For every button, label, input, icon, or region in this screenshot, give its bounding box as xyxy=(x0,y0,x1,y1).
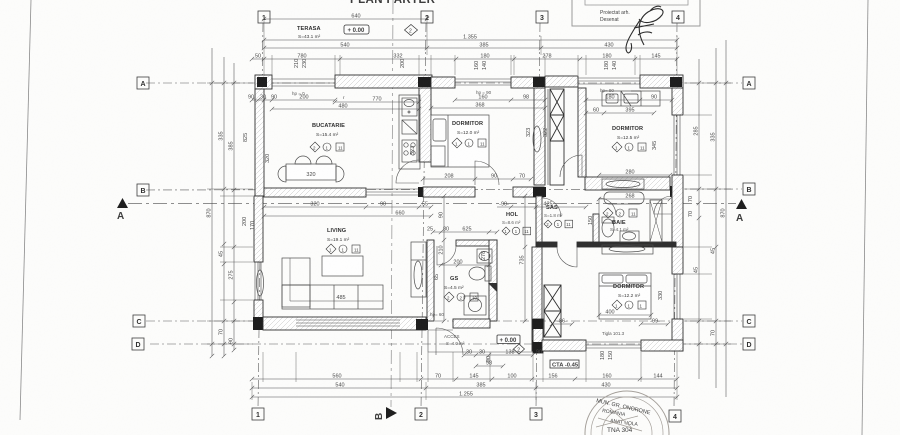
axis column 2 xyxy=(421,23,426,408)
paper fold right edge xyxy=(862,0,868,435)
axis row C xyxy=(146,320,742,322)
dim chain dorm1 bottom xyxy=(421,177,533,181)
door arc entry xyxy=(436,328,463,355)
dim chain dorm1 width xyxy=(429,106,547,110)
section line A-A xyxy=(128,203,736,205)
dim chain dorm2 wardrobe xyxy=(584,111,656,115)
paper fold left edge xyxy=(20,0,31,420)
dim chain left inner xyxy=(232,63,236,350)
dim chain entry small xyxy=(462,353,535,357)
dim chain left total xyxy=(210,48,214,356)
axis column 1 xyxy=(258,23,263,408)
grid bubble 4 bottom xyxy=(669,410,681,422)
grid bubble 4 top xyxy=(672,11,684,23)
section marker A right xyxy=(736,199,747,224)
symbols dormitor1 xyxy=(452,138,486,148)
axis column 3 xyxy=(536,23,540,408)
wall kitchen top xyxy=(335,75,432,88)
wall baie bottom right xyxy=(577,242,676,247)
signature scribble xyxy=(626,6,663,53)
window living bottom xyxy=(296,320,400,326)
dim chain gs inner xyxy=(439,263,491,267)
pillows bed dorm3 xyxy=(602,275,623,283)
scan noise overlay xyxy=(0,0,1,1)
bathtub BAIE top xyxy=(604,192,644,204)
dim chain bed dorm3 xyxy=(597,313,653,317)
column B2 xyxy=(418,187,431,197)
axis column 4 xyxy=(674,23,677,408)
bed dorm3 xyxy=(599,273,651,319)
sofa cushions xyxy=(309,285,311,309)
wall bedroom1 top right xyxy=(511,77,545,88)
door arc bedroom1 xyxy=(475,161,499,185)
dresser bedroom2 xyxy=(602,179,644,189)
dim chain bottom total xyxy=(250,395,679,399)
extension lines left xyxy=(207,82,253,84)
wall GS left xyxy=(427,240,434,321)
grid bubble 2 top xyxy=(421,11,433,23)
column A4 xyxy=(670,77,682,87)
window bedroom2 top xyxy=(578,78,640,84)
column entry porch left xyxy=(416,319,428,330)
kitchen fridge xyxy=(402,120,417,134)
grid bubble 3 top xyxy=(536,11,548,23)
column B3 xyxy=(533,187,546,197)
level CTA -0.45 xyxy=(550,360,579,368)
grid bubble D left xyxy=(132,338,144,350)
blanket line bed dorm3 xyxy=(599,285,651,287)
dim chain gs top xyxy=(431,230,499,234)
sofa back line xyxy=(290,258,383,301)
washing machine GS xyxy=(464,296,486,315)
column D4 xyxy=(668,340,682,351)
dresser dorm3 xyxy=(602,245,653,254)
dim chain sas baie xyxy=(597,197,672,201)
chair right xyxy=(336,166,344,182)
axis row A xyxy=(146,82,742,84)
door arc dorm3 xyxy=(557,247,577,267)
wall baie bottom xyxy=(536,242,557,247)
chair top 2 xyxy=(316,156,332,164)
wall living left upper xyxy=(254,196,263,262)
wall kitchen-bedroom1 divider xyxy=(419,88,431,162)
pillow bed1 xyxy=(433,119,446,141)
window marker diamond terasa xyxy=(405,25,418,36)
paper fold center faint xyxy=(391,0,393,407)
coffee table living xyxy=(322,256,363,276)
grid bubble B right xyxy=(743,183,755,195)
extension lines top xyxy=(263,55,265,75)
wall hall-dorm3 divider xyxy=(536,196,542,247)
wall right exterior dorm3 upper xyxy=(672,247,683,274)
dim chain kitchen opening xyxy=(250,98,337,102)
wall GS right xyxy=(489,240,497,321)
kitchen stove xyxy=(402,140,417,162)
axis row B xyxy=(146,189,742,190)
column C3 xyxy=(532,319,542,330)
door arc kitchen xyxy=(396,160,419,183)
grid bubble C right xyxy=(743,315,755,327)
door arc baie exterior xyxy=(654,196,672,214)
extension lines bottom xyxy=(262,352,264,382)
symbols living xyxy=(326,244,360,254)
wall sas-baie divider xyxy=(593,214,599,244)
door arc baie xyxy=(599,198,616,215)
wall bedroom1 top left xyxy=(431,77,455,88)
grid bubble C left xyxy=(133,315,145,327)
nightstand bed1 xyxy=(431,146,445,166)
wall right exterior upper xyxy=(672,88,683,115)
wall living bottom xyxy=(263,317,426,330)
dim chain kitchen 480 xyxy=(270,107,421,111)
wall entry bottom xyxy=(453,319,490,328)
wall kitchen bottom rowB xyxy=(264,188,366,197)
kitchen sink xyxy=(402,98,417,116)
dim chain right total xyxy=(724,40,728,397)
window kitchen bottom xyxy=(366,189,419,195)
window living left xyxy=(255,262,261,300)
radiator bedroom1 right xyxy=(533,126,541,152)
symbols SAS xyxy=(544,220,573,228)
radiator living left wall xyxy=(257,270,264,296)
symbols bucatarie xyxy=(310,142,344,152)
dim chain entry 98 xyxy=(474,364,505,368)
dim chain left mid xyxy=(222,57,226,356)
dim chain dorm2 window xyxy=(584,98,674,102)
shaft X-braced dorm3 xyxy=(544,285,561,337)
wall GS top xyxy=(456,240,497,246)
grid bubble 1 bottom xyxy=(252,408,264,420)
column A1 xyxy=(257,77,267,87)
wall right exterior mid xyxy=(672,175,683,247)
kitchen counter xyxy=(399,95,420,169)
wall dorm3 left xyxy=(532,247,542,351)
sink GS xyxy=(477,249,492,263)
column porch top xyxy=(533,319,543,329)
grid bubble A right xyxy=(743,77,755,89)
section marker B bottom xyxy=(374,407,397,420)
wall bedroom2 top right xyxy=(640,75,683,88)
symbols HOL xyxy=(502,227,531,235)
dim chain bottom 540-385-430 xyxy=(250,386,679,390)
dim chain living top total xyxy=(262,214,433,218)
window dorm3 bottom xyxy=(586,342,641,348)
dim chain right mid xyxy=(714,48,718,388)
grid bubble D right xyxy=(743,338,755,350)
wardrobe bedroom2 xyxy=(602,91,660,106)
dim chain hol xyxy=(497,205,588,209)
window bedroom1 top xyxy=(455,79,511,85)
wall bedroom2 bottom xyxy=(585,177,670,190)
dim chain terasa 640 xyxy=(262,17,429,21)
column D3 xyxy=(532,340,542,351)
duct below shaft xyxy=(550,141,564,185)
shower BAIE xyxy=(650,200,662,242)
toilet BAIE xyxy=(602,219,614,237)
dim chain hall right xyxy=(523,194,527,323)
sink BAIE xyxy=(620,231,639,242)
dim chain living top xyxy=(262,205,433,209)
level +0.00 acces xyxy=(497,335,520,344)
wall bedroom1 bottom left xyxy=(423,187,475,197)
exterior step porch xyxy=(543,340,582,351)
title block frame top right xyxy=(572,0,700,26)
extension lines right xyxy=(684,82,731,84)
wall living left lower xyxy=(254,300,263,321)
toilet GS xyxy=(469,267,485,280)
level +0.00 terasa xyxy=(344,25,369,34)
stamp seal bottom right xyxy=(585,391,669,435)
wall bedroom2 left xyxy=(578,88,586,177)
grid bubble B left xyxy=(137,184,149,196)
shaft chimney X-braced top xyxy=(550,89,564,141)
column porch bottom xyxy=(533,342,543,353)
dim chain total top 1355 xyxy=(262,38,679,42)
sofa living horizontal part xyxy=(282,285,383,309)
dim chain right outer xyxy=(697,59,701,379)
window dorm3 right xyxy=(674,274,680,319)
window marker diamond acces xyxy=(514,344,525,354)
symbols dormitor2 xyxy=(612,142,646,152)
door arc GS xyxy=(437,246,456,265)
axis row D xyxy=(150,343,742,345)
symbols dormitor3 xyxy=(612,300,646,310)
terrace slab edge xyxy=(272,79,335,86)
chair top 1 xyxy=(295,156,311,164)
wall kitchen left xyxy=(255,89,264,196)
wall dorm3 bottom left xyxy=(542,340,586,351)
sofa living vertical part xyxy=(282,258,310,307)
dim chain kitchen top wall xyxy=(333,100,421,104)
column A3 xyxy=(533,77,546,87)
wall bedroom2 top left xyxy=(545,76,578,87)
blanket line bed1 xyxy=(447,115,449,167)
wall bedroom1 right xyxy=(534,88,545,185)
wall bedroom1 bottom right xyxy=(513,187,544,197)
porch outline xyxy=(428,330,533,352)
column A2 xyxy=(418,77,431,87)
wall top corner col1 xyxy=(255,75,272,89)
dim chain top detail xyxy=(250,57,679,61)
dim chain dorm1 window xyxy=(453,98,547,102)
door arc sas xyxy=(542,198,561,217)
grid bubble 3 bottom xyxy=(530,408,542,420)
bed bedroom1 xyxy=(431,115,489,167)
chair left xyxy=(278,166,286,182)
wall dorm3 bottom right xyxy=(641,340,683,351)
wall right exterior dorm3 lower xyxy=(672,319,683,351)
symbols GS xyxy=(444,292,478,302)
grid bubble 1 top xyxy=(258,11,270,23)
symbols BAIE xyxy=(603,208,637,218)
grid bubble 2 bottom xyxy=(415,408,427,420)
wall porch right vertical xyxy=(533,319,543,353)
column B4 xyxy=(670,186,682,197)
window bedroom2 right xyxy=(674,115,680,175)
left chain end ticks xyxy=(210,348,236,358)
dim chain dorm3 c xyxy=(639,322,670,326)
door arc bedroom2 xyxy=(560,155,582,177)
dim chain hall left xyxy=(442,194,446,323)
dim chain top 540-385-430 xyxy=(262,46,679,50)
column C1 xyxy=(253,317,266,330)
section marker A left xyxy=(117,198,128,222)
dim chain bottom detail xyxy=(250,377,679,381)
entry closet xyxy=(411,242,426,297)
dining table xyxy=(286,164,336,180)
dim chain dorm3 c2 xyxy=(550,322,574,326)
grid bubble A left xyxy=(137,77,149,89)
dim chain dorm2 bottom xyxy=(597,173,672,177)
